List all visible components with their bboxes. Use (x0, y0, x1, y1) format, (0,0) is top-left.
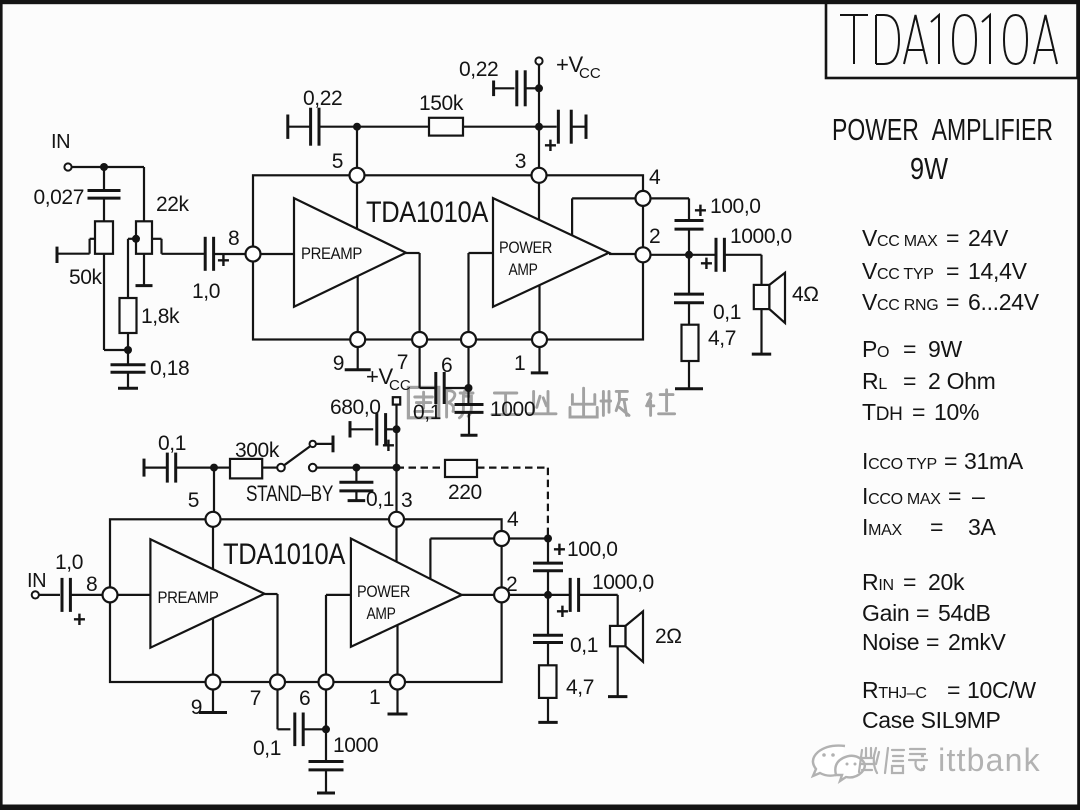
svg-text:0,1: 0,1 (413, 401, 441, 424)
svg-text:50k: 50k (69, 266, 103, 289)
svg-text:100,0: 100,0 (710, 195, 761, 218)
svg-text:6: 6 (299, 687, 310, 710)
svg-text:300k: 300k (235, 439, 280, 462)
svg-text:1: 1 (514, 352, 525, 375)
svg-text:TDA1010A: TDA1010A (223, 538, 345, 571)
svg-text:AMP: AMP (367, 604, 396, 623)
svg-text:4,7: 4,7 (566, 676, 594, 699)
svg-text:3: 3 (515, 150, 526, 173)
svg-text:150k: 150k (419, 92, 464, 115)
svg-text:4: 4 (649, 166, 661, 189)
svg-text:4Ω: 4Ω (792, 283, 819, 306)
svg-text:RIN=20k: RIN=20k (862, 569, 965, 595)
svg-text:0,1: 0,1 (253, 737, 281, 760)
svg-text:9: 9 (333, 352, 344, 375)
svg-text:POWER: POWER (499, 238, 552, 257)
svg-text:Gain=54dB: Gain=54dB (862, 600, 991, 626)
svg-text:CC: CC (389, 377, 411, 394)
svg-text:0,1: 0,1 (570, 634, 598, 657)
svg-text:8: 8 (228, 227, 239, 250)
svg-text:0,1: 0,1 (713, 301, 741, 324)
svg-text:9W: 9W (910, 151, 949, 186)
svg-text:7: 7 (250, 687, 261, 710)
svg-text:IN: IN (27, 570, 46, 592)
svg-text:Noise=2mkV: Noise=2mkV (862, 629, 1007, 655)
svg-text:+: + (217, 248, 229, 273)
svg-text:POWER: POWER (357, 582, 410, 601)
svg-text:6: 6 (441, 354, 452, 377)
svg-text:9: 9 (191, 696, 202, 719)
svg-text:1,0: 1,0 (192, 280, 220, 303)
svg-text:+: + (694, 198, 706, 223)
svg-text:2: 2 (506, 573, 517, 596)
svg-text:680,0: 680,0 (330, 396, 381, 419)
svg-text:2Ω: 2Ω (655, 625, 682, 648)
svg-text:1,8k: 1,8k (141, 305, 180, 328)
svg-text:+: + (382, 433, 394, 458)
svg-text:4,7: 4,7 (708, 327, 736, 350)
svg-text:AMP: AMP (509, 260, 538, 279)
svg-text:8: 8 (86, 573, 97, 596)
svg-text:1000,0: 1000,0 (730, 225, 792, 248)
svg-text:+: + (700, 251, 712, 276)
svg-text:1,0: 1,0 (55, 551, 83, 574)
svg-text:+: + (556, 599, 568, 624)
svg-text:CC: CC (579, 65, 601, 82)
svg-text:0,1: 0,1 (158, 432, 186, 455)
svg-text:0,18: 0,18 (150, 357, 189, 380)
svg-text:: ittbank: : ittbank (918, 742, 1041, 778)
svg-text:POWER AMPLIFIER: POWER AMPLIFIER (832, 112, 1053, 147)
svg-text:PREAMP: PREAMP (301, 244, 362, 263)
svg-text:0,22: 0,22 (303, 87, 342, 110)
svg-text:+: + (73, 607, 85, 632)
svg-text:1: 1 (369, 686, 380, 709)
svg-text:0,1: 0,1 (366, 488, 394, 511)
svg-text:1000: 1000 (490, 398, 535, 421)
svg-text:STAND–BY: STAND–BY (246, 481, 334, 506)
svg-text:PREAMP: PREAMP (158, 588, 219, 607)
svg-text:1000: 1000 (333, 734, 378, 757)
svg-text:5: 5 (188, 489, 199, 512)
svg-text:220: 220 (448, 481, 482, 504)
svg-text:5: 5 (332, 150, 343, 173)
svg-text:IN: IN (51, 131, 70, 153)
svg-text:0,027: 0,027 (33, 186, 84, 209)
svg-text:1000,0: 1000,0 (592, 571, 654, 594)
svg-text:TDA1010A: TDA1010A (366, 196, 488, 229)
svg-text:+: + (553, 537, 565, 562)
svg-text:Case SIL9MP: Case SIL9MP (862, 707, 1001, 733)
svg-text:0,22: 0,22 (459, 58, 498, 81)
svg-text:2: 2 (649, 225, 660, 248)
svg-text:4: 4 (507, 508, 519, 531)
svg-text:+: + (544, 133, 556, 158)
svg-text:100,0: 100,0 (567, 538, 618, 561)
svg-text:3: 3 (401, 489, 412, 512)
svg-text:22k: 22k (156, 193, 190, 216)
svg-text:7: 7 (397, 351, 408, 374)
